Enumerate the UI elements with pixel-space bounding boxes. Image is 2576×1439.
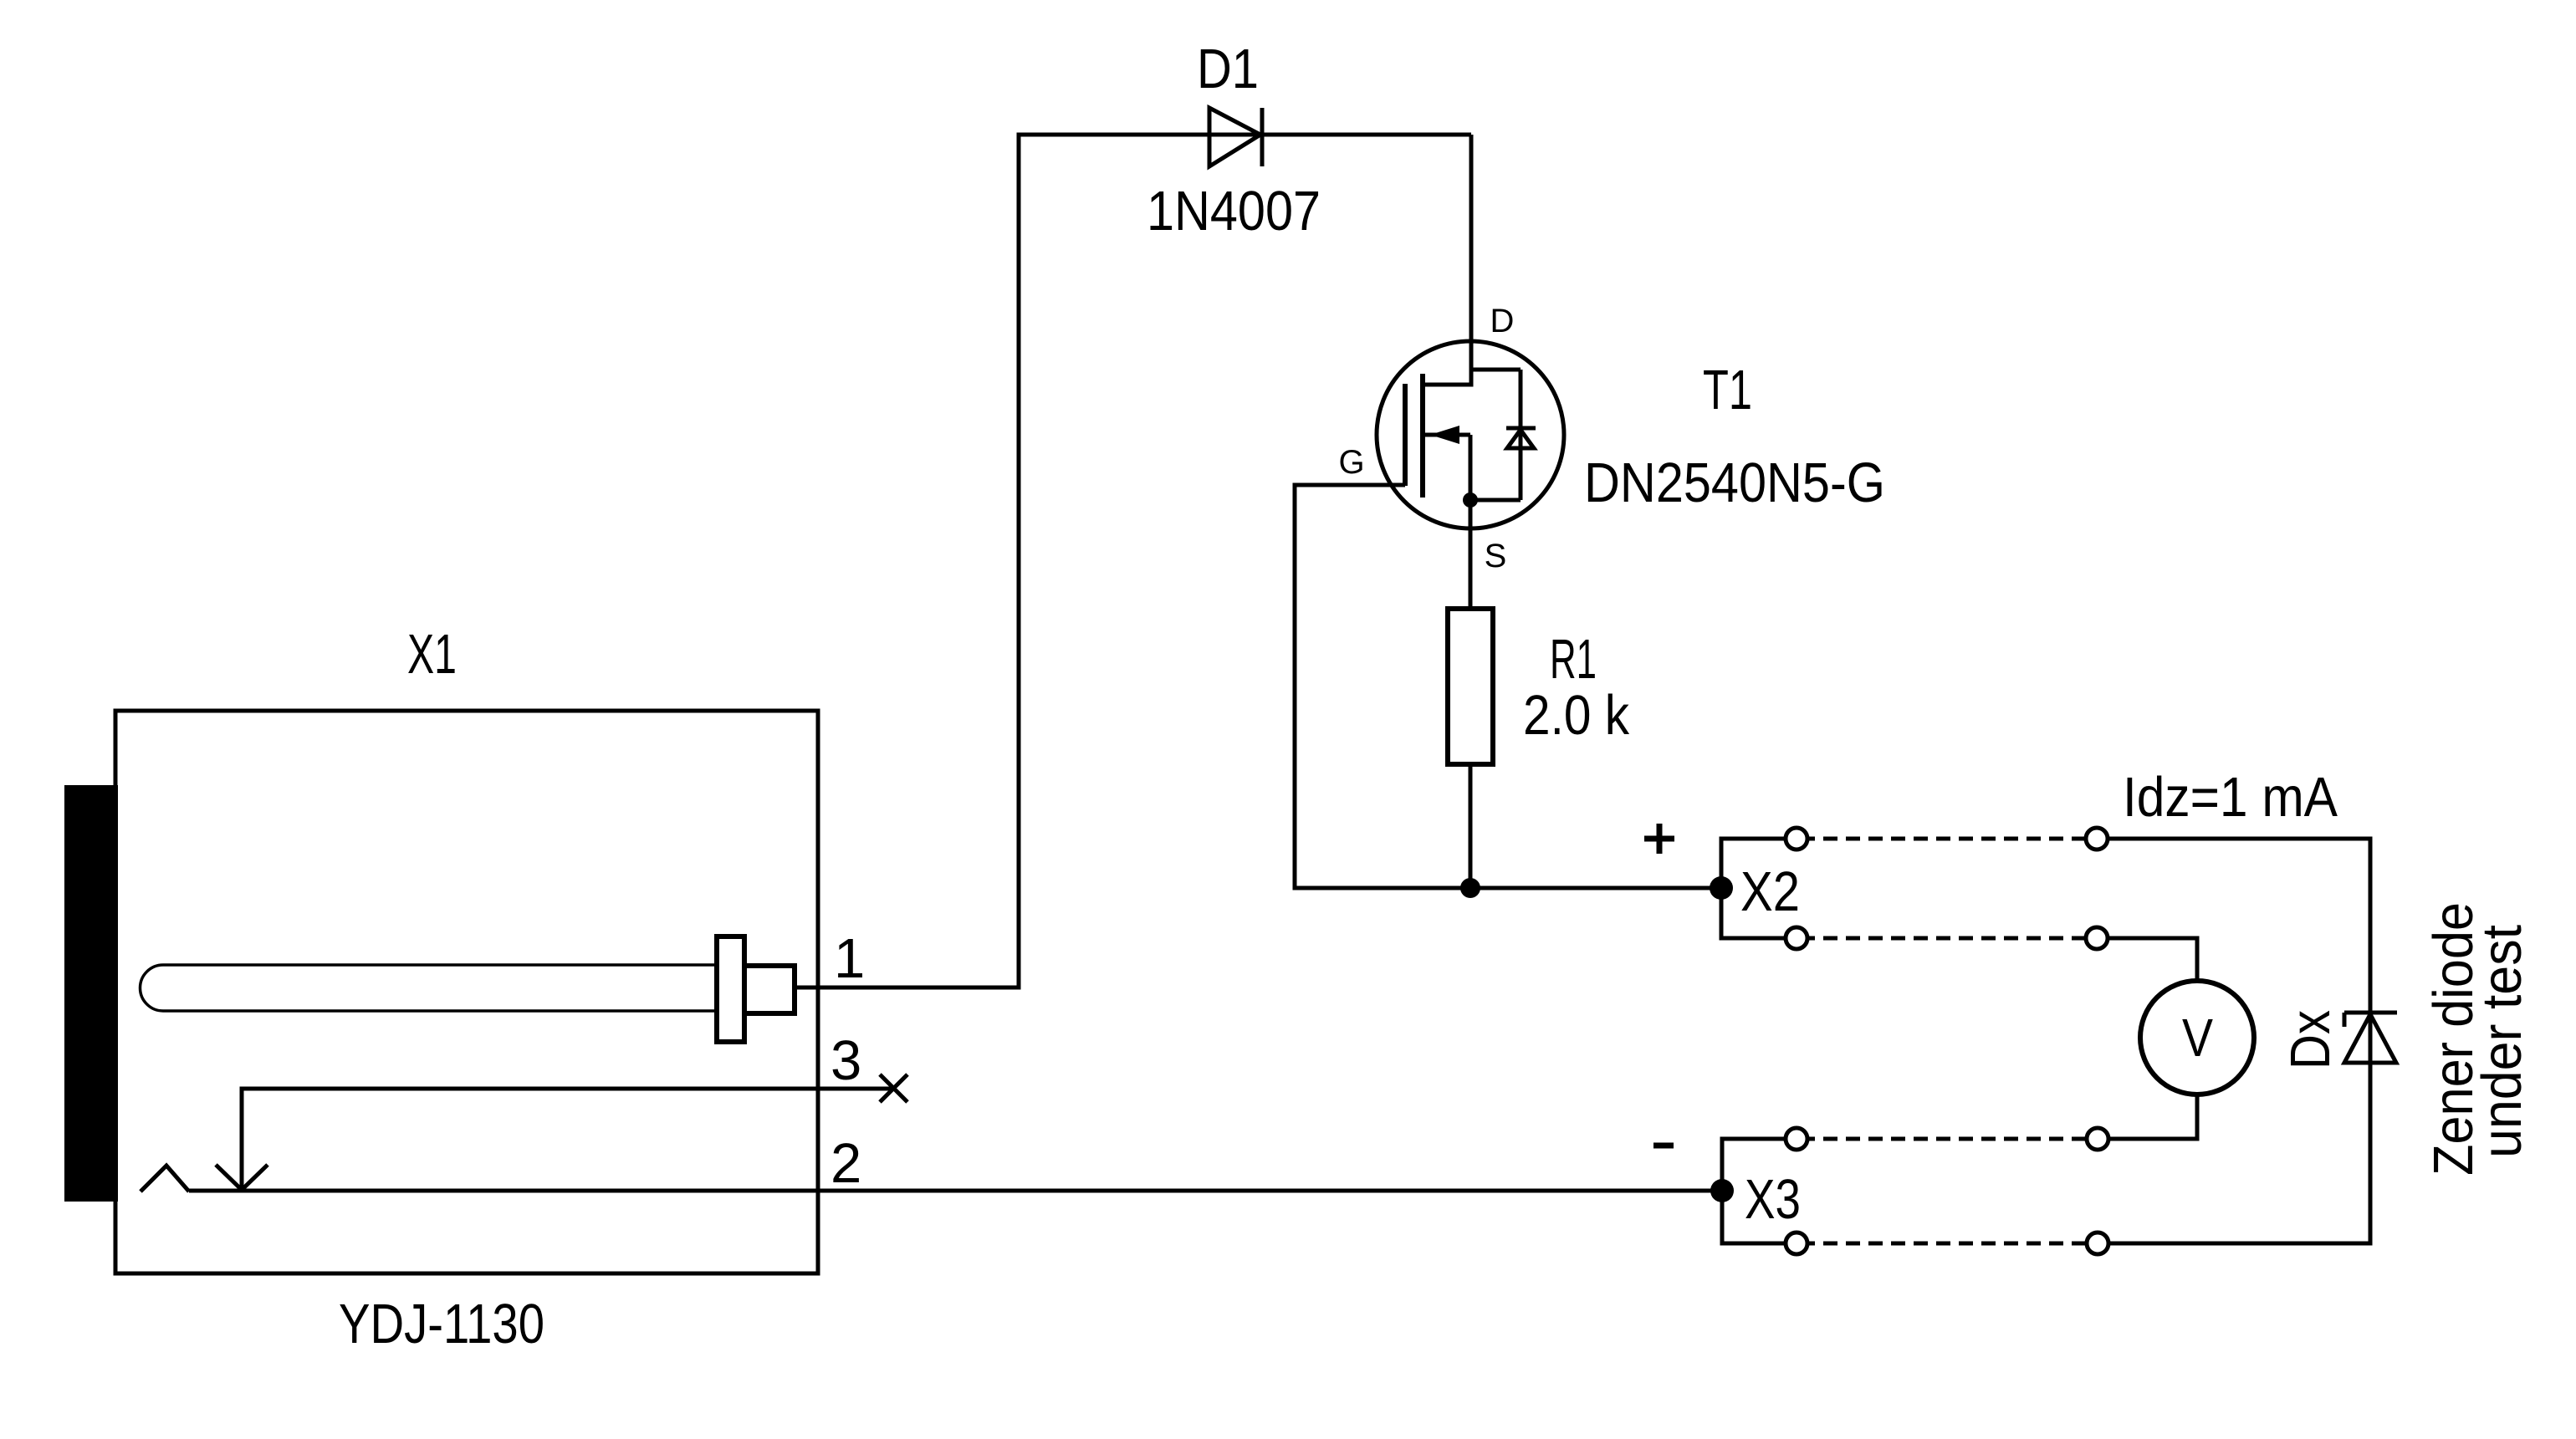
svg-text:DN2540N5-G: DN2540N5-G <box>1584 452 1885 514</box>
svg-text:D: D <box>1490 303 1515 339</box>
svg-text:1: 1 <box>834 927 865 990</box>
svg-text:T1: T1 <box>1703 359 1752 421</box>
svg-text:2.0 k: 2.0 k <box>1523 684 1629 747</box>
svg-text:Idz=1 mA: Idz=1 mA <box>2123 766 2338 829</box>
svg-text:G: G <box>1338 444 1364 481</box>
svg-text:S: S <box>1485 538 1507 574</box>
svg-text:YDJ-1130: YDJ-1130 <box>339 1293 544 1355</box>
svg-text:D1: D1 <box>1197 38 1259 100</box>
svg-text:X1: X1 <box>407 623 457 686</box>
svg-text:V: V <box>2182 1008 2213 1068</box>
svg-text:1N4007: 1N4007 <box>1147 180 1321 242</box>
svg-text:R1: R1 <box>1550 628 1597 691</box>
svg-text:X3: X3 <box>1745 1168 1801 1231</box>
svg-text:X2: X2 <box>1740 860 1800 923</box>
svg-text:under test: under test <box>2471 925 2533 1158</box>
svg-text:2: 2 <box>831 1132 861 1195</box>
svg-text:Dx: Dx <box>2279 1010 2342 1069</box>
svg-text:3: 3 <box>831 1029 861 1092</box>
